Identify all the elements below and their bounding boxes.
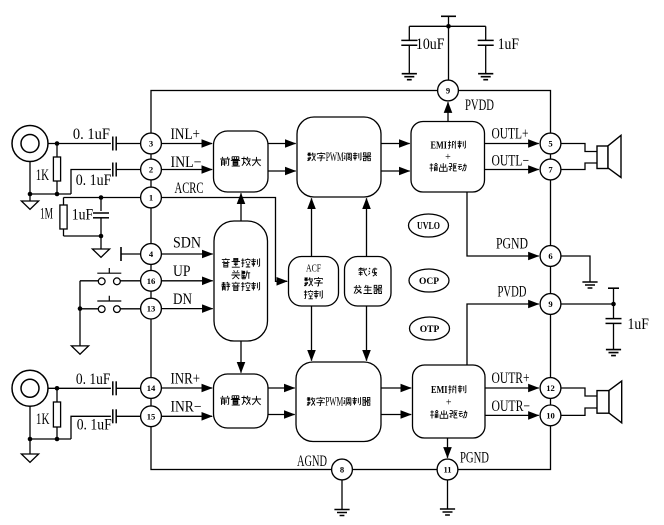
wire DN (161, 308, 212, 310)
svg-text:1: 1 (149, 193, 153, 203)
wire UP right (120, 280, 140, 282)
wire jack sleeve (29, 406, 31, 439)
svg-text:UP: UP (173, 263, 191, 280)
wire INR+ pin14 (161, 387, 212, 389)
node rail junction (78, 306, 83, 311)
wire UP (161, 280, 212, 282)
svg-text:UVLO: UVLO (417, 221, 440, 232)
wire bus riser (71, 416, 111, 439)
pin 7 (540, 159, 561, 180)
svg-text:OCP: OCP (419, 277, 439, 287)
speaker LS1 (597, 135, 621, 177)
wire gnd stem (100, 236, 102, 249)
label PWM L (307, 152, 315, 160)
IC boundary U1 (151, 91, 551, 470)
label ACF line2 (304, 277, 313, 286)
svg-text:6: 6 (548, 251, 553, 261)
wire volume to preampR (240, 341, 242, 373)
block preamp R (214, 374, 269, 428)
wire gnd stem (29, 439, 31, 454)
label preamp R (220, 396, 230, 405)
wire cap rail (409, 25, 485, 27)
resistor R2 1M (60, 205, 67, 229)
wire PWM to EMI A (381, 143, 410, 145)
audio jack J2 outer (12, 370, 48, 406)
svg-text:15: 15 (147, 411, 156, 421)
svg-text:+: + (446, 398, 452, 409)
label preamp L (220, 157, 230, 166)
pushbutton S1 actuator (97, 268, 121, 273)
capacitor C5 0.1uF (112, 409, 114, 423)
svg-text:OUTL−: OUTL− (492, 153, 530, 170)
wire bus riser (71, 170, 111, 195)
svg-text:INR−: INR− (171, 399, 202, 416)
label EMI R line3 (430, 410, 438, 418)
pin 5 (540, 133, 561, 154)
label volume line3 (221, 282, 230, 291)
svg-text:13: 13 (147, 304, 156, 314)
wire cap stub up (613, 288, 615, 304)
wire INR- pin15 (161, 415, 212, 417)
svg-text:0. 1uF: 0. 1uF (73, 126, 110, 143)
svg-text:9: 9 (446, 86, 450, 96)
wire ground bus (30, 438, 71, 440)
pushbutton S2 actuator (97, 296, 121, 301)
block preamp L (214, 131, 269, 192)
wire 1uF to ground (485, 45, 487, 73)
ground (440, 509, 455, 515)
wire SDN stub (121, 253, 141, 255)
svg-text:1M: 1M (40, 206, 53, 223)
pin 9 right (540, 294, 561, 315)
wire 1K bottom (56, 427, 58, 439)
svg-text:11: 11 (443, 465, 451, 475)
wire DN right (120, 308, 140, 310)
svg-text:INR+: INR+ (171, 371, 201, 388)
wire PVDD bottom (467, 304, 539, 365)
svg-text:OTP: OTP (420, 325, 440, 335)
wire INL- pin2 (161, 169, 212, 171)
wire PWM to EMI-R A (381, 387, 411, 389)
wire PWM to EMI-R B (381, 414, 411, 416)
label PWM R (307, 397, 315, 405)
svg-text:PGND: PGND (496, 236, 528, 253)
block volume control (214, 221, 268, 341)
audio jack J1 outer (12, 126, 48, 162)
capacitor 10uF (401, 39, 417, 41)
SDN terminal bar (120, 247, 122, 261)
svg-text:1uF: 1uF (498, 36, 520, 53)
wire button rail (79, 281, 81, 346)
svg-text:INL−: INL− (171, 154, 202, 171)
ground (92, 249, 109, 257)
wire DN left (80, 308, 98, 310)
wire volume to preampL (240, 193, 242, 221)
wire jack sleeve (29, 162, 31, 195)
speaker LS2 (597, 381, 622, 423)
capacitor C6 1uF (606, 318, 622, 320)
wire pin7 to speaker (561, 163, 597, 170)
ground (402, 74, 417, 80)
wire bottom bus (64, 235, 102, 237)
wire 1uF drop (100, 198, 102, 212)
wire 10uF drop (408, 26, 410, 40)
PVDD terminal (608, 287, 619, 289)
wire C5 to pin15 (116, 415, 140, 417)
svg-text:PWM: PWM (326, 149, 344, 164)
svg-text:5: 5 (548, 139, 552, 149)
audio jack J1 inner (21, 135, 39, 153)
wire pin12 to speaker (561, 388, 597, 396)
node (28, 437, 33, 442)
pin 9 top (438, 80, 459, 101)
block EMI R (413, 365, 486, 438)
PVDD supply terminal (441, 15, 456, 17)
wire C2 to pin2 (116, 169, 140, 171)
capacitor C3 1uF (93, 212, 109, 214)
wire OUTR- (485, 414, 539, 416)
block PWM modulator L (297, 117, 381, 197)
wire SDN (161, 253, 212, 255)
wire pin8 ground stem (341, 480, 343, 510)
block carrier generator (345, 257, 392, 307)
svg-text:1uF: 1uF (72, 207, 94, 224)
pin 16 (141, 270, 162, 291)
wire preampL to PWM B (268, 170, 296, 172)
wire carrier to PWM-L (366, 198, 368, 256)
pin 4 (141, 244, 162, 265)
ground (334, 510, 349, 516)
wire C1 to pin3 (116, 143, 140, 145)
wire preampR to PWM A (268, 387, 295, 389)
wire 1uF drop (485, 26, 487, 40)
svg-text:1uF: 1uF (628, 316, 650, 333)
wire C4 to pin14 (116, 387, 140, 389)
pin 11 (437, 459, 458, 480)
wire 10uF to ground (408, 45, 410, 73)
wire PGND top (467, 192, 539, 256)
wire preampL to PWM A (268, 143, 296, 145)
label EMI L line3 (429, 163, 437, 171)
node jack junction (55, 141, 60, 146)
svg-text:EMI: EMI (431, 140, 448, 151)
oval UVLO (409, 214, 449, 237)
pushbutton S1 contact (114, 278, 121, 285)
ground (21, 454, 38, 462)
svg-text:10uF: 10uF (416, 36, 445, 53)
pushbutton S2 contact (114, 306, 121, 313)
capacitor C1 0.1uF (112, 137, 114, 151)
wire UP left (80, 280, 98, 282)
svg-text:0. 1uF: 0. 1uF (77, 417, 112, 434)
svg-text:PVDD: PVDD (498, 284, 527, 301)
wire EMI to pin9 PVDD (447, 102, 449, 121)
wire OUTR+ (485, 387, 539, 389)
node ACRC junction (99, 195, 104, 200)
wire pin10 to speaker (561, 408, 597, 415)
capacitor C4 0.1uF (112, 381, 114, 395)
label ACF line3 (304, 290, 313, 299)
pin 1 (141, 187, 162, 208)
node (611, 302, 616, 307)
svg-text:2: 2 (149, 165, 153, 175)
resistor R3 1K (53, 402, 60, 427)
pin 2 (141, 159, 162, 180)
node (28, 192, 33, 197)
ground (71, 346, 88, 354)
pin 10 (540, 405, 561, 426)
svg-text:EMI: EMI (431, 385, 448, 396)
label carrier line1 (358, 267, 367, 276)
svg-text:OUTL+: OUTL+ (492, 126, 529, 143)
label volume line1 (222, 258, 230, 267)
pushbutton S2 contact (98, 306, 105, 313)
wire ACF to PWM-R (311, 306, 313, 361)
ground (582, 282, 597, 288)
wire preampR to PWM B (268, 414, 295, 416)
svg-text:12: 12 (546, 383, 555, 393)
wire ACF to PWM-L (311, 198, 313, 256)
svg-text:PVDD: PVDD (465, 97, 494, 114)
svg-text:7: 7 (548, 165, 553, 175)
oval OTP (410, 317, 450, 340)
svg-text:PGND: PGND (460, 450, 489, 467)
block PWM modulator R (296, 362, 381, 442)
pin 15 (141, 406, 162, 427)
pin 6 (540, 246, 561, 267)
wire pin6 to ground (561, 256, 590, 282)
wire 1K top (56, 144, 58, 158)
wire cap to ground (613, 323, 615, 349)
svg-text:DN: DN (173, 291, 192, 308)
pin 12 (540, 378, 561, 399)
wire 1M top (63, 198, 65, 206)
svg-text:ACF: ACF (306, 262, 321, 274)
wire jack ground stem (29, 194, 31, 201)
pin 13 (141, 298, 162, 319)
wire ground bus (30, 193, 71, 195)
svg-text:+: + (445, 152, 451, 163)
wire jack to C4 (48, 387, 111, 389)
node (55, 437, 60, 442)
label volume line2 (231, 270, 240, 279)
wire EMI-R to pin11 PGND (447, 438, 449, 458)
svg-text:14: 14 (147, 383, 156, 393)
wire 1uF bottom (100, 218, 102, 236)
wire OUTL- (485, 169, 539, 171)
wire 1K bottom (56, 181, 58, 194)
wire ACRC to ACF (161, 198, 287, 282)
wire pin11 ground stem (447, 480, 449, 509)
ground (21, 201, 38, 209)
wire jack to C1 (48, 143, 111, 145)
svg-text:0. 1uF: 0. 1uF (76, 172, 112, 189)
svg-text:OUTR+: OUTR+ (492, 370, 530, 387)
svg-text:AGND: AGND (297, 453, 327, 470)
svg-text:10: 10 (546, 410, 555, 420)
wire supply stem (448, 16, 450, 80)
ground (606, 350, 621, 356)
oval OCP (409, 269, 449, 292)
capacitor C2 0.1uF (112, 163, 114, 177)
svg-text:3: 3 (149, 139, 153, 149)
pushbutton S1 contact (98, 278, 105, 285)
wire 1K top (56, 388, 58, 402)
wire OUTL+ (485, 143, 539, 145)
label carrier line2 (354, 285, 362, 294)
ground (478, 74, 493, 80)
pin 8 (332, 459, 353, 480)
pin 3 (141, 133, 162, 154)
svg-text:PWM: PWM (325, 394, 343, 409)
capacitor C-1uF-top (478, 39, 494, 41)
wire pin9R to cap (561, 303, 614, 305)
svg-text:SDN: SDN (173, 235, 201, 252)
resistor R1 1K (53, 157, 60, 181)
svg-text:0. 1uF: 0. 1uF (76, 371, 111, 388)
svg-text:9: 9 (548, 299, 552, 309)
svg-text:16: 16 (147, 276, 156, 286)
svg-text:1K: 1K (36, 167, 50, 184)
svg-text:OUTR−: OUTR− (492, 398, 531, 415)
svg-text:4: 4 (149, 249, 154, 259)
block EMI L (411, 122, 485, 193)
wire ACRC left (64, 197, 141, 199)
node supply junction (446, 24, 451, 29)
wire pin5 to speaker (561, 144, 597, 152)
svg-text:INL+: INL+ (171, 126, 201, 143)
wire carrier to PWM-R (366, 306, 368, 361)
wire cap drop (613, 304, 615, 319)
svg-text:1K: 1K (36, 411, 50, 428)
block ACF control (289, 257, 339, 307)
pin 14 (141, 378, 162, 399)
wire 1M bottom (63, 229, 65, 236)
svg-text:8: 8 (340, 465, 345, 475)
node (55, 386, 60, 391)
node (55, 192, 60, 197)
wire INL+ pin3 (161, 143, 212, 145)
svg-text:ACRC: ACRC (175, 180, 204, 197)
wire PWM to EMI B (381, 170, 410, 172)
node (99, 234, 104, 239)
audio jack J2 inner (21, 379, 39, 397)
